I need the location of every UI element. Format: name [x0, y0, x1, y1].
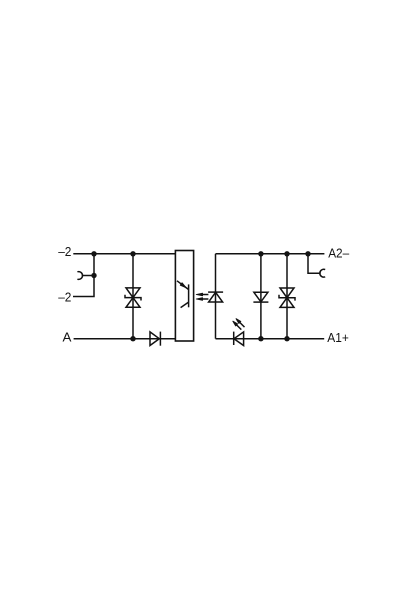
optocoupler U1 body: [175, 251, 193, 342]
indicator LED emission arrows: [233, 319, 245, 330]
junction at bottom wire / Z2: [284, 336, 289, 341]
junction at bottom wire / D2: [258, 336, 263, 341]
svg-text:–2: –2: [58, 290, 71, 305]
svg-text:A: A: [63, 330, 72, 345]
wire: bottom right horizontal (to A1+): [216, 338, 325, 340]
TVS suppressor Z1 (bidirectional): [125, 288, 141, 307]
junction at -2 bus / vertical drop: [91, 251, 96, 256]
junction at jumper stub (left): [91, 273, 96, 278]
wire: top left horizontal (-2 to box U1): [73, 253, 175, 255]
TVS suppressor Z2 (bidirectional): [279, 288, 295, 307]
junction at top wire / Z2: [284, 251, 289, 256]
jumper contact socket (left, open left): [77, 272, 82, 280]
junction at top wire / A2- stub: [305, 251, 310, 256]
wire: TVS Z1 branch vertical: [132, 254, 134, 339]
svg-text:A2–: A2–: [328, 245, 350, 260]
wire: TVS Z2 branch vertical: [286, 254, 288, 339]
diode D4 (series, on wire A): [150, 332, 160, 346]
wire: vertical drop from -2 bus to lower -2 stub: [73, 254, 94, 297]
junction at -2 bus / TVS Z1 top: [130, 251, 135, 256]
svg-text:A1+: A1+: [327, 330, 349, 345]
svg-text:–2: –2: [58, 244, 71, 259]
light arrows from LED to phototransistor: [196, 293, 208, 300]
opto LED D1 (emitter diode): [208, 292, 223, 302]
wire: opto LED branch (top corner to bottom corner): [215, 254, 217, 339]
junction at top wire / D2: [258, 251, 263, 256]
wire: A2- jumper stub: [308, 254, 321, 273]
phototransistor (inside U1): [177, 281, 189, 308]
wire: top right horizontal (to A2-): [216, 253, 325, 255]
wire: freewheel diode D2 branch vertical: [260, 254, 262, 339]
freewheel diode D2: [253, 292, 268, 302]
wire: jumper contact stub (left): [82, 275, 94, 277]
wire: bottom left horizontal (A to box U1): [74, 338, 176, 340]
junction at wire A / TVS Z1 bottom: [130, 336, 135, 341]
indicator LED D3 (on bottom wire): [234, 332, 244, 346]
jumper contact socket (right, open right): [320, 269, 325, 277]
